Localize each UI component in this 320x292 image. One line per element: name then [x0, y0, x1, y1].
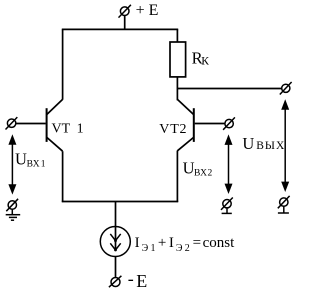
svg-text:1: 1: [151, 243, 156, 254]
transistor VT2: [177, 99, 225, 150]
wire current source to -E: [115, 257, 117, 278]
svg-text:+: +: [158, 235, 166, 251]
svg-text:Э: Э: [176, 243, 183, 254]
arrow Uvyx: [281, 99, 289, 192]
wire VT1 emitter: [62, 151, 64, 202]
wire right vertical to resistor: [176, 29, 178, 42]
svg-text:ВЫХ: ВЫХ: [256, 140, 285, 152]
wire emitter bus: [62, 201, 178, 203]
terminal ground vyx: [278, 196, 290, 213]
svg-text:U: U: [242, 134, 254, 153]
svg-text:const: const: [203, 235, 235, 251]
svg-text:2: 2: [208, 168, 213, 178]
terminal output: [280, 82, 292, 95]
current source I: [100, 227, 130, 257]
terminal +E: [119, 5, 131, 30]
svg-text:2: 2: [185, 243, 190, 254]
arrow Uvx2: [225, 134, 233, 194]
svg-text:Э: Э: [142, 243, 149, 254]
wire output branch: [177, 88, 281, 90]
resistor RK: [170, 42, 186, 77]
svg-text:1: 1: [41, 160, 46, 170]
svg-text:ВХ: ВХ: [194, 168, 207, 178]
svg-text:ВХ: ВХ: [27, 160, 40, 170]
wire below resistor: [176, 77, 178, 100]
terminal VT2 base input: [223, 117, 235, 129]
svg-text:+ E: + E: [136, 2, 159, 19]
svg-text:VT1: VT1: [52, 122, 84, 137]
terminal ground vx2: [221, 198, 233, 214]
svg-text:U: U: [15, 149, 27, 168]
wire left vertical (VT1 collector): [62, 29, 64, 99]
svg-text:I: I: [169, 235, 174, 251]
svg-text:-: -: [128, 269, 134, 289]
terminal -E: [109, 276, 122, 287]
terminal VT1 base input: [6, 117, 18, 129]
svg-text:VT2: VT2: [159, 122, 187, 137]
arrow Uvx1: [8, 134, 16, 194]
label current equation: [135, 235, 235, 254]
svg-text:U: U: [183, 158, 195, 177]
ground left: [6, 199, 21, 220]
wire VT2 emitter: [176, 151, 178, 203]
transistor VT1: [16, 99, 63, 151]
wire top bus: [62, 28, 178, 30]
svg-text:E: E: [136, 271, 147, 291]
svg-text:К: К: [201, 55, 209, 67]
wire to current source: [115, 202, 117, 228]
svg-text:=: =: [193, 235, 201, 251]
svg-text:I: I: [135, 235, 140, 251]
